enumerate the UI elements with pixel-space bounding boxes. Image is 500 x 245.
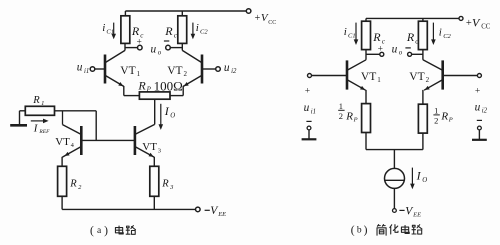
current arrow Io (b) [410, 168, 415, 190]
resistor Rp (a) [139, 92, 170, 99]
caption (b) char jian [377, 225, 386, 236]
label 100 ohm (a) [154, 78, 183, 93]
label ui1 (a) [77, 62, 89, 75]
label iC2 (b) [439, 27, 452, 40]
label ui1 (b) [304, 102, 316, 115]
label + (ui2, b) [475, 86, 480, 96]
wire: VT1 base lead (b) [311, 75, 346, 77]
svg-text:+: + [137, 37, 142, 47]
resistor R1 (a) [25, 106, 54, 115]
caption (a) char lu [126, 226, 135, 235]
svg-text:EE: EE [217, 211, 226, 218]
wire: ui1 source to ground (b) [308, 130, 310, 139]
svg-text:+: + [475, 86, 480, 96]
node: input ui2 terminal (a) [216, 67, 221, 72]
resistor half-Rp (right, b) [418, 104, 427, 133]
label R1 (a) [32, 95, 44, 107]
transistor VT2 collector (a) [182, 50, 201, 62]
svg-text:i: i [196, 22, 199, 34]
svg-text:i: i [102, 22, 105, 34]
resistor half-Rp (left, b) [362, 104, 371, 133]
label + (uo, b) [378, 44, 383, 54]
svg-text:o: o [158, 49, 162, 56]
svg-text:P: P [353, 117, 358, 124]
wire: +Vcc supply rail (b) [366, 17, 459, 19]
label VT2 (b) [409, 71, 429, 84]
wire: Rc2 top stub (b) [422, 18, 424, 21]
node: input ui1 terminal (b) [308, 74, 312, 78]
wire: VT1 emitter down (b) [365, 90, 367, 104]
svg-text:C2: C2 [443, 33, 451, 40]
svg-text:R: R [32, 95, 40, 106]
svg-text:+: + [466, 18, 472, 29]
svg-text:VT: VT [167, 65, 182, 77]
svg-text:R: R [69, 179, 77, 190]
label − (uo, a) [164, 40, 169, 42]
transistor VT1 collector (a) [106, 50, 125, 62]
caption (b) parens [351, 225, 368, 237]
svg-text:i1: i1 [84, 68, 89, 75]
svg-text:2: 2 [339, 111, 343, 121]
label Rc (left, b) [372, 30, 385, 46]
svg-text:): ) [364, 225, 368, 237]
label + (uo, a) [137, 37, 142, 47]
current arrow Io (a) [159, 104, 164, 130]
wire: R2 to rail (a) [61, 196, 63, 209]
svg-text:R: R [164, 24, 173, 38]
transistor VT2 bar (b) [441, 60, 444, 89]
transistor VT4 emitter with arrow (a) [62, 147, 80, 157]
net label +Vcc (a) [255, 12, 277, 26]
transistor VT4 bar (a) [80, 126, 83, 155]
svg-text:O: O [170, 113, 175, 120]
svg-text:EE: EE [412, 212, 421, 219]
wire: Rp center to VT3 (a) [154, 99, 156, 124]
label − (ui2, b) [477, 119, 482, 121]
label iC1 (b) [344, 26, 356, 40]
caption (b) char hua [390, 225, 398, 234]
svg-text:(: ( [351, 225, 355, 237]
node: -Vee terminal (a) [196, 207, 201, 212]
wire: mirror node down to bases (a) [95, 111, 97, 141]
svg-text:R: R [137, 78, 146, 92]
svg-text:i1: i1 [311, 108, 316, 115]
wire: Rc1 to collector node (b) [365, 50, 367, 60]
svg-text:+: + [305, 86, 310, 96]
label uo (a) [151, 43, 162, 56]
wire: half-Rp2 down (b) [422, 133, 424, 150]
svg-text:+: + [378, 44, 383, 54]
wire: VT1 base lead (a) [95, 68, 104, 70]
label half-Rp (left, b) [338, 101, 357, 124]
svg-text:1: 1 [434, 105, 438, 115]
svg-text:2: 2 [184, 70, 188, 78]
wire: Rc1 top stub (b) [365, 18, 367, 21]
label R3 (a) [161, 179, 174, 191]
svg-text:2: 2 [426, 76, 430, 84]
caption (b) char dian [401, 225, 409, 233]
svg-text:i: i [439, 27, 442, 39]
label Rc (left, a) [131, 24, 144, 40]
label − (uo, b) [405, 47, 410, 49]
node: uo− terminal (b) [408, 52, 412, 56]
current arrow iC1 (b) [354, 23, 359, 45]
svg-text:+: + [255, 13, 261, 24]
transistor VT2 bar (a) [201, 55, 204, 84]
wire: VT3 emitter to R3 (a) [153, 157, 155, 167]
current arrow iC2 (a) [191, 23, 196, 40]
svg-text:1: 1 [137, 70, 141, 78]
wire: Rc1 top stub (a) [124, 11, 126, 16]
label + (ui1, b) [305, 86, 310, 96]
svg-text:R: R [372, 30, 381, 44]
svg-text:R: R [345, 111, 353, 123]
wire: ui2 source to ground (b) [478, 130, 480, 139]
wire: VT2 base lead (a) [203, 68, 216, 70]
svg-text:u: u [392, 43, 398, 55]
transistor VT2 emitter with arrow (b) [424, 80, 442, 90]
transistor VT2 emitter with arrow (a) [183, 76, 201, 87]
wire: VT4 emitter to R2 (a) [61, 157, 63, 167]
resistor Rc (left, b) [362, 21, 371, 49]
svg-text:): ) [104, 225, 108, 237]
wire: R3 to rail (a) [153, 196, 155, 209]
label VT2 (a) [167, 65, 187, 78]
label VT3 (a) [142, 141, 161, 154]
wire: Rc1 to collector node (a) [124, 43, 126, 50]
wire: Rc2 to collector node (a) [181, 43, 183, 50]
transistor VT1 emitter with arrow (b) [348, 80, 366, 90]
svg-text:O: O [422, 177, 427, 184]
transistor VT3 bar (a) [134, 126, 137, 155]
label R2 (a) [69, 179, 82, 191]
svg-text:C1: C1 [348, 33, 356, 40]
label half-Rp (right, b) [433, 105, 452, 125]
ground (ui2, b) [472, 139, 487, 141]
svg-text:1: 1 [377, 76, 381, 84]
resistor Rc (left, a) [121, 16, 130, 44]
node: +Vcc terminal (a) [246, 9, 251, 14]
net label +Vcc (b) [466, 15, 491, 30]
transistor VT3 emitter with arrow (a) [136, 147, 155, 157]
svg-text:P: P [448, 117, 453, 124]
svg-text:o: o [399, 49, 403, 56]
svg-text:2: 2 [434, 116, 438, 126]
caption (a) char dian [115, 226, 123, 234]
svg-text:u: u [151, 43, 157, 55]
wire: VT2 emitter down (b) [422, 90, 424, 104]
net label -Vee (a) [205, 205, 227, 218]
svg-text:VT: VT [142, 141, 157, 153]
label Iref (a) [33, 122, 50, 135]
wire: R1 right to mirror node (a) [55, 110, 97, 112]
wire: VT2 base lead (b) [444, 75, 478, 77]
svg-text:u: u [77, 62, 83, 74]
current arrow Iref (a) [31, 119, 49, 124]
svg-text:C1: C1 [106, 29, 114, 36]
svg-text:(: ( [90, 225, 94, 237]
svg-text:3: 3 [169, 184, 174, 191]
svg-text:1: 1 [339, 101, 343, 111]
label Io (a) [164, 104, 176, 119]
wire: Rc2 to collector node (b) [422, 50, 424, 60]
wire: Rc2 top stub (a) [181, 11, 183, 16]
wire: VT2 emitter to Rp (a) [170, 95, 183, 97]
svg-text:i2: i2 [231, 68, 237, 75]
svg-text:3: 3 [158, 147, 161, 154]
svg-text:VT: VT [409, 71, 424, 83]
transistor VT1 bar (a) [104, 55, 107, 84]
label ui2 (a) [224, 62, 237, 75]
label VT4 (a) [55, 136, 74, 149]
wire: VT4-VT3 base link (a) [82, 139, 134, 141]
node: uo− terminal (a) [166, 45, 171, 50]
svg-text:REF: REF [38, 129, 50, 135]
label Rp (a) [137, 78, 151, 93]
ground [10, 124, 27, 127]
current source Io (b) [385, 168, 405, 188]
svg-text:100Ω: 100Ω [154, 78, 183, 93]
label ui2 (b) [475, 101, 488, 114]
svg-text:VT: VT [361, 71, 376, 83]
label Rc (right, b) [406, 30, 419, 46]
resistor R3 (a) [150, 166, 159, 196]
svg-text:R: R [440, 111, 448, 123]
svg-text:VT: VT [55, 136, 70, 148]
label Rc (right, a) [164, 24, 177, 40]
svg-text:R: R [406, 30, 415, 44]
node: +Vcc terminal (b) [459, 16, 463, 20]
svg-text:u: u [224, 62, 230, 74]
label iC2 (a) [196, 22, 209, 36]
wire: uo+ stub (a) [125, 47, 138, 49]
wire: join to current source (b) [393, 150, 395, 169]
svg-text:CC: CC [481, 24, 491, 31]
svg-text:P: P [146, 85, 152, 93]
node: uo+ terminal (b) [380, 52, 384, 56]
label VT1 (b) [361, 71, 381, 84]
wire: VT1 emitter down (a) [123, 86, 125, 96]
wire: uo− stub (b) [412, 53, 423, 55]
svg-text:u: u [304, 102, 310, 114]
wire: current source to -Vee (b) [393, 188, 395, 208]
label − (ui1, b) [306, 120, 311, 122]
svg-text:b: b [357, 226, 362, 236]
svg-text:i2: i2 [482, 108, 488, 115]
label iC1 (a) [102, 22, 114, 36]
net label -Vee (b) [399, 205, 421, 218]
transistor VT1 bar (b) [346, 60, 349, 89]
resistor Rc (right, b) [418, 21, 427, 49]
svg-text:VT: VT [120, 65, 135, 77]
node: ui2 source terminal (b) [478, 126, 482, 130]
svg-text:R: R [161, 179, 169, 190]
transistor VT4 collector (a) [63, 111, 81, 134]
transistor VT3 collector (a) [136, 124, 155, 134]
wire: uo− stub (a) [170, 47, 182, 49]
label VT1 (a) [120, 65, 140, 78]
svg-text:CC: CC [268, 20, 276, 26]
wire: half-Rp1 down (b) [365, 133, 367, 150]
ground (ui1, b) [302, 138, 317, 140]
transistor VT2 collector (b) [423, 60, 442, 70]
svg-text:C2: C2 [200, 29, 208, 36]
wire: VT1 emitter to Rp (a) [124, 95, 140, 97]
svg-text:u: u [475, 101, 481, 113]
current arrow iC2 (b) [431, 23, 436, 45]
wire: uo+ stub (b) [366, 53, 380, 55]
node: ui1 source terminal (b) [307, 126, 311, 130]
caption (a) dianlu parens [90, 225, 108, 237]
wire: emitter join (b) [366, 149, 423, 151]
node: -Vee terminal (b) [393, 209, 397, 213]
wire: -Vee supply rail (a) [62, 208, 196, 210]
node: input ui1 terminal (a) [90, 67, 95, 72]
label Io (b) [416, 169, 428, 184]
label uo (b) [392, 43, 403, 56]
node: input ui2 terminal (b) [477, 74, 481, 78]
svg-text:R: R [131, 24, 140, 38]
resistor R2 (a) [58, 166, 67, 196]
svg-text:i: i [344, 26, 347, 38]
wire: R1 left lead (a) [20, 111, 26, 125]
current arrow iC1 (a) [111, 23, 116, 40]
wire: VT2 emitter down (a) [182, 86, 184, 96]
caption (b) char lu [412, 225, 422, 234]
node: uo+ terminal (a) [138, 45, 143, 50]
transistor VT1 collector (b) [348, 60, 366, 70]
svg-text:1: 1 [41, 100, 44, 107]
resistor Rc (right, a) [178, 16, 187, 44]
transistor VT1 emitter with arrow (a) [106, 76, 124, 87]
wire: +Vcc supply rail (a) [125, 10, 246, 12]
